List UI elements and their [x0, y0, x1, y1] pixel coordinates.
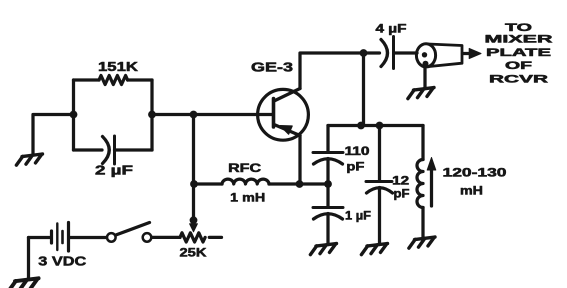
- wire emitter node to cap node: [300, 182, 329, 185]
- inductor L1 120-130 mH variable: [417, 126, 436, 238]
- node A junction dot: [70, 111, 78, 119]
- switch S1: [107, 223, 151, 242]
- wire rail node down to tank top: [362, 53, 365, 126]
- wire tank top rail: [328, 124, 423, 127]
- node J junction dot above wiper arrow: [190, 216, 198, 224]
- wire RFC left: [194, 182, 222, 185]
- node D junction dot on top rail: [360, 49, 368, 57]
- capacitor C2 4uF: [381, 37, 394, 69]
- battery BT1 3VDC: [29, 223, 69, 252]
- wire collector up and top rail: [300, 53, 380, 89]
- wire RC-loop top: [74, 78, 153, 81]
- svg-text:4 µF: 4 µF: [376, 24, 407, 36]
- ground: [310, 244, 336, 255]
- svg-text:TO: TO: [505, 22, 533, 34]
- svg-text:151K: 151K: [98, 60, 138, 74]
- wire RC-loop left vertical: [72, 80, 75, 150]
- ground: [361, 244, 387, 255]
- ground: [16, 154, 42, 165]
- svg-text:110: 110: [345, 146, 370, 158]
- node H junction dot: [324, 180, 332, 188]
- inductor L2 RFC 1mH: [222, 179, 269, 184]
- capacitor C1 2uF: [103, 136, 115, 164]
- wire RFC right: [269, 182, 300, 185]
- ground: [9, 278, 39, 288]
- svg-text:120-130: 120-130: [443, 166, 507, 180]
- svg-text:3 VDC: 3 VDC: [38, 253, 87, 268]
- wire RC-loop bottom: [74, 148, 153, 151]
- wire left stub from ground to node A: [33, 115, 74, 156]
- svg-text:1 µF: 1 µF: [345, 211, 371, 223]
- svg-text:pF: pF: [346, 162, 364, 174]
- capacitor C4 1uF: [313, 184, 343, 245]
- node F junction dot: [376, 122, 384, 130]
- resistor 151K: [99, 76, 128, 85]
- ground: [408, 88, 434, 99]
- node G junction dot: [296, 180, 304, 188]
- svg-text:25K: 25K: [180, 246, 207, 260]
- wire emitter vertical: [298, 136, 301, 185]
- svg-text:PLATE: PLATE: [486, 47, 551, 59]
- svg-text:RFC: RFC: [228, 161, 261, 175]
- svg-text:GE-3: GE-3: [251, 61, 293, 75]
- capacitor C5 12pF: [366, 126, 393, 245]
- connector J1 coax to receiver: [416, 44, 481, 67]
- svg-text:mH: mH: [460, 184, 483, 198]
- wire main base wire: [152, 113, 273, 116]
- wire RC-loop right vertical: [150, 80, 153, 150]
- svg-text:1 mH: 1 mH: [230, 190, 265, 204]
- wire cap to connector: [394, 51, 417, 54]
- svg-text:pF: pF: [394, 189, 410, 201]
- potentiometer R2 25K: [180, 233, 205, 242]
- ground: [409, 237, 435, 248]
- node I junction dot (RFC left): [190, 180, 198, 188]
- label TO MIXER PLATE OF RCVR: [485, 22, 553, 86]
- node E junction dot: [357, 122, 365, 130]
- capacitor C3 110pF: [313, 126, 343, 185]
- wire pot right stub: [209, 236, 221, 239]
- wire switch to pot: [152, 236, 180, 239]
- node C junction dot (base wire to bias branch): [190, 111, 198, 119]
- wiper arrow onto potentiometer: [190, 217, 198, 232]
- node B junction dot: [148, 111, 156, 119]
- svg-text:OF: OF: [505, 60, 532, 72]
- wire connector ground stem: [423, 67, 426, 89]
- svg-text:2 µF: 2 µF: [95, 164, 134, 178]
- transistor Q1 GE-3: [258, 89, 309, 141]
- wire battery to switch: [70, 236, 107, 239]
- svg-text:12: 12: [392, 176, 409, 188]
- wire bias branch vertical: [192, 115, 195, 218]
- svg-text:RCVR: RCVR: [489, 74, 548, 86]
- wire battery ground stem: [27, 238, 30, 280]
- svg-text:MIXER: MIXER: [485, 34, 553, 46]
